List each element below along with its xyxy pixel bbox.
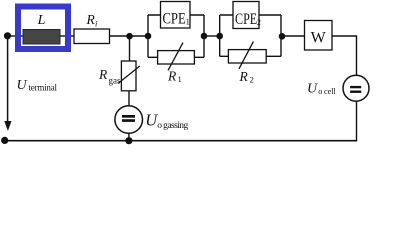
wire parallel1 to parallel2 xyxy=(204,35,220,37)
svg-text:R: R xyxy=(86,12,96,27)
wire cell source to bottom xyxy=(356,101,358,141)
wire parallel2 to W xyxy=(281,35,305,37)
gassing branch wire down xyxy=(129,36,131,61)
wire inductor to Ri xyxy=(60,35,74,37)
resistor Rgas xyxy=(98,61,140,91)
Warburg element W xyxy=(305,21,333,51)
svg-text:1: 1 xyxy=(186,16,190,26)
label U terminal xyxy=(17,78,58,93)
wire CPE2 top branch xyxy=(220,14,281,16)
blue highlight frame xyxy=(18,7,68,50)
wire CPE1 top branch xyxy=(148,14,204,16)
svg-text:2: 2 xyxy=(257,18,261,27)
svg-text:2: 2 xyxy=(250,75,254,85)
wire Rgas to gassing source xyxy=(128,91,130,106)
svg-text:terminal: terminal xyxy=(29,83,58,93)
svg-text:L: L xyxy=(37,13,46,28)
resistor R2 xyxy=(228,42,266,85)
svg-text:1: 1 xyxy=(178,74,182,84)
svg-text:o: o xyxy=(318,87,322,96)
wire parallel2 right vertical xyxy=(280,15,282,56)
wire gassing source to bottom xyxy=(128,133,130,141)
svg-text:U: U xyxy=(307,82,318,97)
svg-text:gas: gas xyxy=(109,76,121,86)
wire R1 bottom branch xyxy=(148,56,204,58)
node after Ri xyxy=(126,33,133,40)
node parallel2 left xyxy=(216,33,223,40)
svg-text:R: R xyxy=(167,69,177,84)
CPE1 xyxy=(161,2,191,29)
svg-text:CPE: CPE xyxy=(235,11,257,28)
svg-text:W: W xyxy=(311,30,327,47)
wire parallel1 left vertical xyxy=(147,15,149,57)
wire parallel2 left vertical xyxy=(219,15,221,56)
arrow terminal xyxy=(4,121,11,131)
wire R2 bottom branch xyxy=(220,55,281,57)
resistor Ri xyxy=(74,12,110,44)
source Uo gassing xyxy=(115,106,189,134)
node bottom left terminal xyxy=(1,137,8,144)
node parallel1 left xyxy=(145,33,152,40)
node top left terminal xyxy=(4,32,11,39)
wire terminal arrow line xyxy=(7,39,9,122)
node gassing bottom xyxy=(125,137,132,144)
node parallel1 right xyxy=(201,33,208,40)
wire W to right corner xyxy=(332,36,357,75)
source Uo cell xyxy=(307,75,369,101)
svg-text:CPE: CPE xyxy=(163,11,186,28)
svg-text:R: R xyxy=(98,67,108,82)
wire Ri to parallel1 xyxy=(110,35,149,37)
wire bottom rail xyxy=(5,140,358,142)
CPE2 xyxy=(233,2,261,29)
node parallel2 right xyxy=(279,33,286,40)
wire main top left xyxy=(8,35,24,37)
inductor L xyxy=(23,13,60,44)
wire parallel1 right vertical xyxy=(203,15,205,57)
resistor R1 xyxy=(158,43,195,84)
svg-text:U: U xyxy=(17,78,28,93)
svg-text:cell: cell xyxy=(324,87,337,96)
svg-text:R: R xyxy=(239,69,249,84)
svg-text:o gassing: o gassing xyxy=(157,121,188,131)
